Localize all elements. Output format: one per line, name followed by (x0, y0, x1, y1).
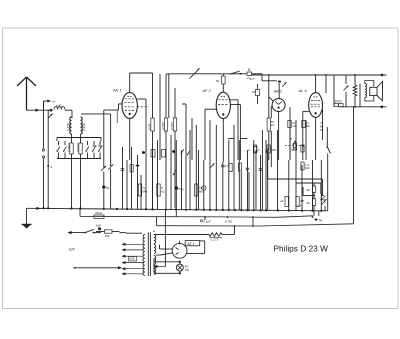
resistor 50k (267, 74, 275, 160)
wire bus3 (157, 217, 354, 227)
capacitor 2.5 (221, 164, 229, 168)
voltage label box (129, 257, 137, 262)
speaker (365, 81, 383, 102)
label AB2 (273, 89, 283, 94)
svg-text:3,000: 3,000 (161, 122, 165, 130)
wire right column (353, 107, 355, 224)
svg-text:0.1µF: 0.1µF (204, 220, 212, 224)
trimmer cap d (92, 141, 97, 159)
wire (289, 128, 291, 161)
label AF2 (202, 88, 212, 93)
switch lever (173, 169, 177, 175)
wire (120, 232, 143, 235)
resistor 25k in bus2 (94, 211, 104, 218)
svg-text:220: 220 (129, 257, 135, 261)
wire ground leg (25, 208, 27, 224)
wire (241, 73, 247, 75)
switch lever (266, 147, 270, 153)
wire AL4 cathode (315, 117, 317, 160)
wire HT resistor line (156, 234, 209, 236)
wire stub (314, 211, 319, 216)
resistor 4 kΩ (157, 184, 166, 196)
resistor 0.1 MΩ (195, 184, 205, 196)
tube AL4 (309, 93, 323, 118)
wire (57, 138, 101, 142)
svg-text:100: 100 (56, 104, 62, 109)
wire top bus right (252, 74, 335, 76)
junction m (47, 110, 53, 208)
resistor 2023 (334, 100, 343, 107)
tube AF2 (216, 92, 230, 118)
fuse B (247, 68, 255, 79)
resistor box mains (96, 230, 120, 238)
wire (270, 106, 272, 118)
wire speaker top (334, 74, 387, 77)
wire AB2 cathode (269, 97, 279, 160)
wire (80, 159, 82, 210)
resistor field (209, 226, 235, 238)
capacitor 0.002 (170, 88, 176, 208)
svg-text:50: 50 (216, 79, 220, 83)
wire (324, 206, 326, 211)
wire comb to ground bus (104, 125, 321, 211)
wire HT top (154, 231, 160, 235)
capacitor 5000 (288, 121, 297, 129)
capacitor (121, 169, 125, 171)
antenna plug break (42, 149, 44, 158)
junction (50, 109, 53, 112)
svg-text:2023: 2023 (335, 100, 342, 104)
node LA arrow (44, 100, 56, 111)
output transformer (360, 84, 367, 98)
trimmer cap (48, 114, 53, 119)
switch contact a (56, 141, 59, 159)
wire ground bus main (26, 207, 327, 211)
svg-text:4,5: 4,5 (300, 199, 305, 203)
transformer secondary heater1 (154, 245, 156, 254)
label 6700 (225, 219, 233, 223)
svg-text:0.150: 0.150 (82, 123, 86, 131)
resistor 0.0018 (76, 143, 82, 154)
wire anode AK1 (130, 73, 153, 118)
resistor 30a (296, 183, 321, 193)
wire (182, 104, 186, 208)
wire grid AF2 (205, 109, 216, 160)
wire mains top (68, 231, 85, 234)
label AZ1 box (185, 241, 200, 246)
svg-text:LA: LA (52, 100, 55, 104)
resistor box (151, 150, 155, 158)
tube AB2 (272, 99, 285, 112)
wire (333, 103, 335, 107)
wire (43, 158, 45, 208)
capacitor (246, 168, 250, 170)
grid stopper dashed (285, 144, 304, 152)
field coil resistor (353, 85, 357, 96)
capacitor at AB2 grid (278, 81, 287, 99)
pilot lamp (176, 264, 183, 271)
resistor box 1,4MΩ (301, 162, 311, 170)
resistor 30b (297, 187, 316, 211)
transformer secondary heater3 (154, 266, 156, 275)
resistor above AF2 (216, 74, 225, 92)
wire grid AK1 (104, 104, 122, 168)
svg-text:50µ: 50µ (179, 187, 184, 191)
svg-text:7W: 7W (185, 268, 190, 272)
trimmer (209, 163, 214, 168)
capacitor with dot (290, 137, 297, 150)
rectifier AZ1 (172, 243, 187, 258)
voltage selector taps (122, 243, 143, 275)
capacitor 3000 (161, 74, 167, 208)
wire (65, 110, 72, 118)
antenna (17, 77, 36, 110)
switch contact b (63, 141, 66, 159)
resistor 1/4 MΩ (138, 184, 148, 196)
resistor box (229, 164, 232, 172)
switch S2 (230, 71, 241, 75)
junction dots on ground bus (42, 207, 322, 212)
capacitor mains (96, 224, 101, 231)
wire cathode AF2 (222, 119, 224, 162)
wire AVC (268, 150, 323, 196)
resistor 0.1 MΩ (302, 121, 310, 129)
wire screen AK1 (137, 99, 148, 160)
label lamp (185, 264, 190, 271)
wire bus bottom of switches (57, 154, 101, 159)
capacitor (259, 169, 263, 171)
wire (354, 74, 360, 108)
tube AK1 (122, 93, 137, 119)
switch contact (181, 149, 184, 154)
label resistor (211, 238, 219, 242)
wire mains bottom (74, 267, 122, 270)
svg-text:6,700: 6,700 (225, 219, 233, 223)
wire bus2 (80, 208, 313, 217)
wire AL4 grid (296, 111, 309, 160)
junction dots bus2 (204, 216, 323, 222)
wire lamp loop (154, 261, 181, 275)
wire (43, 101, 45, 149)
capacitor 0.05 (148, 118, 154, 208)
svg-text:50: 50 (252, 90, 256, 94)
wire oscillator top (166, 74, 240, 118)
wire (333, 75, 335, 103)
resistor 0.0002 (67, 143, 73, 154)
resistor 40 (280, 197, 288, 207)
label AK1 (112, 88, 122, 93)
wire (204, 217, 206, 220)
electrolytic (202, 186, 206, 190)
transformer core (148, 233, 150, 277)
resistor box (254, 146, 260, 152)
svg-text:µF: µF (280, 199, 284, 203)
wire (191, 118, 193, 160)
capacitor (136, 165, 140, 167)
svg-text:0.05: 0.05 (148, 124, 152, 130)
svg-text:AK 1: AK 1 (112, 88, 122, 93)
trimmer (101, 166, 106, 171)
trimmer cap e (98, 141, 103, 159)
wire (209, 120, 211, 165)
capacitor blob (142, 151, 145, 154)
ground (22, 224, 32, 228)
svg-text:1,4: 1,4 (297, 204, 301, 208)
resistor box (248, 145, 257, 153)
wire (252, 217, 254, 226)
wire cathode AK1 (129, 119, 131, 161)
svg-text:Philips D 23 W: Philips D 23 W (274, 244, 329, 254)
coil L2 0.100 (67, 117, 72, 134)
resistor box (238, 163, 241, 171)
svg-text:S1F: S1F (69, 247, 76, 251)
wire speaker bottom (340, 106, 387, 109)
svg-text:5µF: 5µF (96, 224, 101, 228)
svg-text:B: B (290, 137, 292, 141)
tuning capacitor arrow (189, 68, 199, 78)
wire (72, 134, 81, 143)
wire (270, 131, 272, 167)
wire bus top of switches (57, 137, 101, 139)
tone capacitor (343, 75, 348, 107)
svg-text:+10: +10 (292, 125, 297, 128)
svg-text:0.002: 0.002 (170, 122, 174, 130)
switch S1 (84, 229, 101, 233)
svg-text:MΩ: MΩ (306, 125, 310, 128)
capacitor blob (102, 186, 110, 190)
coil L3 0.150 (81, 117, 86, 134)
wire AZ1 filaments (156, 245, 173, 256)
svg-text:AB 2: AB 2 (273, 89, 283, 94)
wire screen AF2 (230, 100, 240, 160)
svg-text:AZ 1: AZ 1 (186, 242, 194, 246)
switch S3 (327, 127, 331, 211)
svg-text:25kΩ: 25kΩ (95, 211, 103, 215)
svg-text:C: C (258, 149, 260, 152)
transformer secondary HT (154, 235, 156, 244)
transformer secondary heater2 (154, 256, 156, 265)
svg-text:50: 50 (106, 186, 110, 190)
resistor 4.5 (296, 197, 305, 207)
switch contact c (85, 141, 88, 159)
resistor box (130, 165, 133, 173)
svg-text:25k: 25k (105, 234, 110, 238)
capacitor blob (172, 150, 175, 153)
resistor small (252, 84, 260, 104)
resistor box (162, 150, 166, 158)
svg-text:30: 30 (307, 201, 311, 205)
label Philips D 23 W (274, 244, 329, 254)
svg-text:AL 4: AL 4 (298, 88, 308, 93)
resistor box (301, 145, 304, 152)
wire (153, 259, 155, 262)
label S1F (69, 247, 76, 251)
svg-text:30: 30 (307, 188, 311, 192)
svg-text:AF 2: AF 2 (202, 88, 212, 93)
wire heater drop (164, 210, 166, 267)
wire AL4 anode (315, 74, 317, 93)
wire (27, 109, 54, 112)
capacitor 50uF (175, 186, 184, 191)
wire (71, 159, 73, 209)
wire (175, 210, 177, 218)
heater tap arrow (154, 265, 166, 268)
wire (325, 74, 327, 93)
diode (320, 183, 327, 205)
wire (81, 110, 117, 166)
wire (262, 79, 277, 82)
wire if transformer (159, 74, 161, 160)
trimmer (108, 164, 113, 169)
wire jog (228, 138, 247, 140)
wire (252, 74, 263, 80)
svg-text:0.0002: 0.0002 (67, 143, 71, 152)
transformer primary (143, 235, 145, 276)
coil L1 100 (54, 104, 65, 110)
svg-text:0.100: 0.100 (67, 123, 71, 131)
resistor box (267, 145, 277, 153)
svg-text:1,275: 1,275 (211, 238, 219, 242)
switch contact (187, 150, 190, 155)
label 75 50 25 (320, 121, 324, 132)
wire AZ1 loop (180, 241, 205, 254)
svg-text:5µ: 5µ (319, 218, 323, 222)
wire (290, 107, 323, 160)
label AL4 (298, 88, 308, 93)
svg-text:25: 25 (320, 128, 324, 132)
svg-text:0.0018: 0.0018 (76, 143, 80, 152)
label 0.1uF (200, 220, 211, 224)
